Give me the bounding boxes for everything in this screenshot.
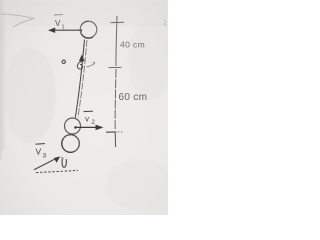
svg-text:1: 1 (62, 25, 65, 31)
ball bottom (circle) (62, 135, 80, 153)
faint corner squiggle top-right (164, 20, 167, 26)
faint pencil chevron top-left (1, 14, 34, 27)
svg-text:V: V (36, 147, 42, 157)
curl on pole (77, 62, 82, 70)
label V3 bar (36, 143, 46, 146)
tick bottom (106, 131, 117, 133)
dimension line vertical (116, 16, 117, 66)
pole double line (left stroke) (75, 40, 84, 118)
tick top (111, 21, 125, 23)
pole double line (right stroke) (78, 40, 87, 118)
svg-text:60 cm: 60 cm (119, 92, 148, 103)
ball top (circle) (80, 21, 97, 38)
arrowhead V1 (48, 28, 55, 34)
up arrowhead on pole (79, 55, 85, 62)
arrowhead V2 (96, 125, 104, 131)
svg-text:V: V (55, 19, 61, 28)
label V1 (vector bar) (54, 14, 63, 16)
small o marker (62, 60, 65, 63)
svg-text:v: v (85, 115, 89, 124)
svg-text:3: 3 (43, 153, 47, 160)
arrowhead V3 (54, 156, 60, 162)
dot at arrow tail (80, 29, 82, 31)
arrow V3 (diagonal up-right) (34, 159, 55, 170)
theta angle symbol (62, 159, 66, 167)
paper background (0, 0, 168, 215)
svg-text:40 cm: 40 cm (120, 40, 145, 50)
arrow V1 (points left) (52, 29, 81, 31)
label V2 bar (84, 110, 94, 112)
ball middle (circle) (65, 118, 81, 134)
tick middle (109, 66, 122, 68)
small hook arrow right (87, 62, 95, 67)
dashed ground line (36, 170, 78, 172)
arrow V2 (points right) (74, 126, 77, 129)
